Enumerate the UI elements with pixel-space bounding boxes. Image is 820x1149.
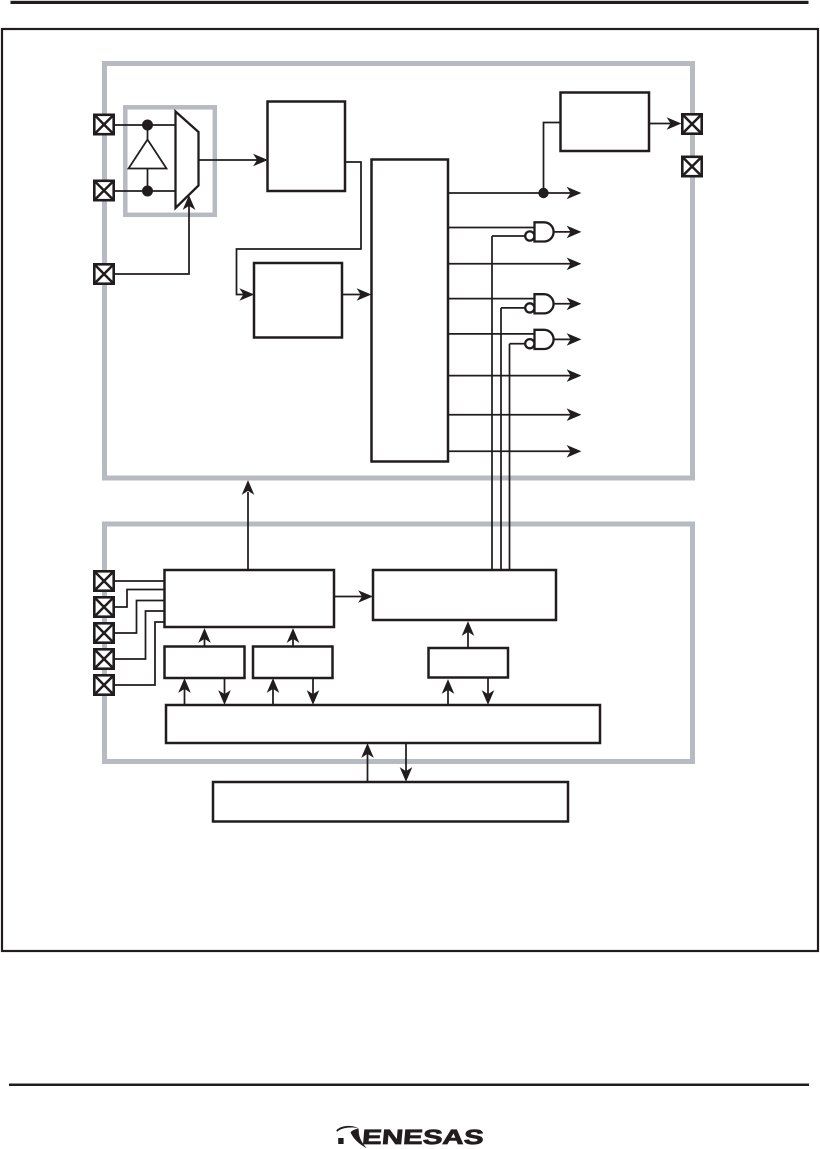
wire divider output 2 <box>448 227 535 229</box>
arrowhead into oscillator block <box>253 154 268 167</box>
wire bus to FRQCR1 <box>184 685 186 705</box>
arrowhead output 3 <box>567 258 582 271</box>
arrowhead output 6 <box>567 369 582 382</box>
pin mode MD4 <box>94 675 113 694</box>
wire G3 enable <box>510 343 526 345</box>
svg-text:ENESAS: ENESAS <box>361 1126 485 1149</box>
module frame: clock oscillation section (gray) <box>105 64 693 479</box>
arrowhead output 5 <box>567 333 582 346</box>
pin CKIO <box>682 114 701 133</box>
wire oscillator to PLL feedback path <box>237 162 362 295</box>
arrowhead into controller from FRQCR1 <box>198 628 211 643</box>
wire G2 output <box>554 303 575 305</box>
arrowhead into PLL block <box>239 288 254 301</box>
arrowhead into bus from FRQCR1 <box>218 690 231 705</box>
register FRQCR1 <box>165 647 245 679</box>
wire MD3 to controller <box>114 611 164 659</box>
wire buffer base to node B <box>147 169 149 192</box>
clock controller block U5 <box>165 570 335 627</box>
arrowhead into divider <box>357 288 372 301</box>
wire FRQCR1 to controller <box>204 635 206 647</box>
pin mode MD0 <box>94 571 113 590</box>
wire MD0 to controller <box>114 580 164 582</box>
wire bus to STBCR <box>447 686 449 705</box>
wire internal bus to peripheral bus <box>367 750 369 782</box>
PLL block U2 <box>254 263 342 338</box>
wire peripheral bus to internal bus <box>405 743 407 775</box>
wire XTAL to mux <box>115 190 176 192</box>
figure outer border frame <box>2 29 818 951</box>
frequency divider block U3 <box>372 160 449 462</box>
node B (XTAL junction) <box>142 186 153 197</box>
wire enable bus line 2 <box>500 308 502 570</box>
wire divider output 8 <box>448 450 575 452</box>
wire enable bus line 1 <box>491 236 493 570</box>
wire FRQCR2 to controller <box>292 635 294 647</box>
wire node C to CKIO buffer <box>544 123 560 194</box>
arrowhead into register from STBCR <box>462 621 475 636</box>
wire FRQCR2 to bus <box>312 678 314 698</box>
and-gate G1 <box>535 222 554 241</box>
arrowhead output 4 <box>567 298 582 311</box>
arrowhead into FRQCR1 <box>178 678 191 693</box>
arrowhead into bus from STBCR <box>482 690 495 705</box>
frequency control register U6 <box>373 570 556 620</box>
pin mode MD1 <box>94 597 113 616</box>
wire PLL to divider <box>342 294 369 296</box>
arrowhead into FRQCR2 <box>267 678 280 693</box>
pin NC <box>682 157 701 176</box>
wire STBCR to register <box>467 628 469 648</box>
wire divider output 5 <box>448 333 535 335</box>
wire divider output 3 <box>448 263 575 265</box>
arrowhead output 7 <box>567 408 582 421</box>
module frame: control register section (gray) <box>105 524 693 762</box>
pin mode MD3 <box>94 649 113 668</box>
wire EXTAL to mux <box>115 124 176 126</box>
arrowhead output 2 <box>567 226 582 239</box>
peripheral bus block U7 <box>166 705 600 743</box>
inverting bubble G1 <box>525 231 534 240</box>
register FRQCR2 <box>253 647 333 679</box>
arrowhead into register <box>358 590 373 603</box>
node C (output 1 junction) <box>538 188 548 198</box>
arrowhead into peripheral bus <box>361 743 374 758</box>
wire divider output 6 <box>448 375 575 377</box>
wire G1 enable <box>492 235 525 237</box>
arrowhead into controller from FRQCR2 <box>287 628 300 643</box>
arrowhead into CKIO pin <box>667 117 682 130</box>
arrowhead into oscillation section <box>242 480 255 495</box>
wire CKIO buffer to pin <box>649 123 674 125</box>
arrowhead output 1 <box>567 187 582 200</box>
pin EXTAL <box>94 115 113 134</box>
register STBCR <box>429 648 509 678</box>
oscillator buffer amplifier <box>129 140 167 169</box>
CKIO buffer block U4 <box>561 93 650 152</box>
wire controller to register <box>334 596 368 598</box>
wire mux select from mode pin <box>115 203 189 274</box>
wire divider output 7 <box>448 414 575 416</box>
oscillator unit frame (gray) <box>125 107 215 215</box>
page footer rule <box>9 1084 809 1087</box>
node A (EXTAL junction) <box>142 120 153 131</box>
arrowhead output 8 <box>567 445 582 458</box>
wire divider output 1 <box>448 192 575 194</box>
wire MD2 to controller <box>114 601 164 634</box>
inverting bubble G3 <box>525 339 534 348</box>
wire bus to FRQCR2 <box>272 685 274 705</box>
arrowhead into mux select <box>183 195 196 210</box>
wire STBCR to bus <box>487 678 489 699</box>
arrowhead into bus from FRQCR2 <box>307 690 320 705</box>
wire node A to buffer apex <box>147 125 149 139</box>
wire mux output <box>199 159 266 161</box>
wire MD1 to controller <box>114 590 164 608</box>
pin mode MD2 <box>94 623 113 642</box>
pin clock mode <box>94 264 113 283</box>
wire G1 output <box>554 231 575 233</box>
and-gate G2 <box>535 294 554 313</box>
inverting bubble G2 <box>525 303 534 312</box>
wire FRQCR1 to bus <box>224 678 226 698</box>
arrowhead into STBCR <box>442 679 455 694</box>
clock source multiplexer <box>176 112 199 209</box>
page header rule <box>11 1 809 4</box>
wire G3 output <box>554 338 575 340</box>
wire controller to oscillation section <box>247 492 249 570</box>
and-gate G3 <box>535 330 554 349</box>
wire enable bus line 3 <box>509 344 511 570</box>
internal bus block U8 <box>213 782 568 822</box>
wire G2 enable <box>501 307 525 309</box>
wire divider output 4 <box>448 298 535 300</box>
arrowhead into internal bus <box>400 767 413 782</box>
pin XTAL <box>94 181 113 200</box>
Renesas logo <box>336 1126 484 1149</box>
oscillator block U1 <box>268 102 346 192</box>
wire MD4 to controller <box>114 622 164 685</box>
